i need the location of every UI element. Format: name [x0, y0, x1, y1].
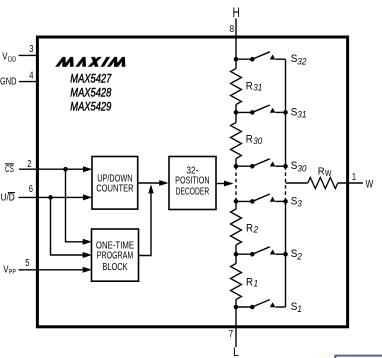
- resistor R1: [231, 264, 242, 300]
- svg-text:R: R: [246, 134, 253, 146]
- svg-text:PROGRAM: PROGRAM: [97, 251, 133, 262]
- svg-text:S: S: [291, 106, 298, 118]
- svg-text:3: 3: [29, 44, 34, 55]
- switch S30: [234, 159, 288, 169]
- label R1: [246, 277, 258, 289]
- wire VPP: [19, 269, 85, 271]
- dashed ladder segment S30 to S3: [235, 166, 237, 201]
- faint smudge: [317, 352, 333, 358]
- svg-text:S: S: [291, 160, 298, 172]
- svg-text:DECODER: DECODER: [176, 186, 210, 197]
- svg-text:2: 2: [253, 225, 259, 235]
- wire R1 to S1: [235, 300, 237, 308]
- svg-text:32: 32: [297, 56, 307, 67]
- svg-text:W: W: [366, 179, 374, 191]
- label S3: [291, 195, 303, 209]
- junction dot U/D: [48, 195, 53, 200]
- svg-text:31: 31: [253, 83, 262, 93]
- arrow CS into counter: [83, 166, 92, 172]
- wire R2 to S2: [235, 245, 237, 264]
- svg-text:6: 6: [29, 184, 34, 195]
- svg-text:R: R: [318, 165, 325, 177]
- wire H into ladder: [235, 19, 237, 69]
- pin VDD label: [2, 52, 16, 64]
- svg-text:L: L: [233, 345, 239, 358]
- wire VDD: [19, 54, 39, 56]
- partial UI box bottom-right: [335, 356, 382, 358]
- resistor R31: [231, 69, 242, 105]
- label R31: [246, 81, 263, 93]
- svg-text:DD: DD: [8, 54, 17, 63]
- svg-text:GND: GND: [0, 77, 17, 88]
- svg-text:3: 3: [297, 199, 302, 210]
- resistor R2: [231, 209, 242, 245]
- svg-text:ONE-TIME: ONE-TIME: [96, 240, 134, 251]
- wiper bus solid upper segment: [285, 59, 287, 166]
- svg-text:S: S: [291, 195, 298, 207]
- arrow into decoder: [159, 180, 168, 186]
- label S32: [291, 53, 307, 67]
- wiper bus solid lower segment: [285, 201, 287, 307]
- arrow decoder to switches: [224, 181, 234, 187]
- svg-text:V: V: [2, 52, 7, 63]
- block U3 one-time program block: [92, 229, 139, 281]
- svg-text:S: S: [291, 301, 298, 313]
- block U1 up/down counter: [92, 157, 138, 210]
- arrow CS branch into program block: [83, 239, 92, 245]
- svg-text:2: 2: [27, 159, 32, 170]
- label RW: [318, 165, 332, 178]
- svg-text:U/D: U/D: [1, 192, 15, 203]
- arrow up from program block: [148, 184, 153, 193]
- svg-text:S: S: [291, 53, 298, 65]
- pin U/D label (down active low): [1, 192, 16, 203]
- arrow U/D branch into program block: [83, 252, 92, 258]
- svg-text:W: W: [325, 169, 332, 178]
- pin VPP label: [3, 264, 16, 276]
- wire ladder bottom to L: [235, 307, 237, 347]
- wire counter to decoder: [138, 182, 160, 184]
- svg-text:MAX5429: MAX5429: [70, 100, 111, 114]
- svg-text:5: 5: [25, 258, 30, 269]
- svg-text:R: R: [246, 223, 253, 235]
- arrow VPP into program block: [83, 267, 92, 273]
- wire U/D: [19, 196, 85, 198]
- label S1: [291, 301, 302, 315]
- resistor RW: [308, 178, 338, 189]
- svg-text:R: R: [246, 81, 253, 93]
- svg-text:31: 31: [297, 110, 306, 121]
- switch S1: [234, 300, 286, 310]
- wire S3 to R2: [235, 201, 237, 209]
- svg-text:CS: CS: [5, 164, 14, 175]
- svg-text:4: 4: [29, 71, 34, 82]
- svg-text:BLOCK: BLOCK: [102, 262, 127, 273]
- svg-text:S: S: [291, 248, 298, 260]
- wiper bus dashed segment: [285, 166, 287, 201]
- svg-text:2: 2: [296, 251, 302, 262]
- junction dot CS: [63, 167, 68, 172]
- pin CS label (active low): [5, 164, 14, 175]
- wire RW to W pin: [338, 182, 363, 184]
- switch S2: [234, 247, 288, 257]
- svg-text:8: 8: [230, 24, 235, 35]
- svg-text:1: 1: [254, 279, 259, 289]
- svg-text:MAX5427: MAX5427: [70, 72, 112, 86]
- wire GND: [19, 81, 39, 83]
- svg-text:1: 1: [352, 172, 357, 183]
- wire CS branch to program block: [66, 169, 84, 242]
- svg-text:1: 1: [297, 304, 302, 315]
- wire U/D branch to program block: [51, 197, 84, 255]
- label S30: [291, 160, 307, 174]
- IC boundary box: [37, 37, 347, 327]
- switch S32: [234, 52, 286, 62]
- svg-text:MAX5428: MAX5428: [70, 86, 111, 100]
- label S31: [291, 106, 307, 120]
- wire bus to RW: [286, 182, 308, 184]
- label R30: [246, 134, 263, 146]
- label R2: [246, 223, 259, 235]
- svg-text:H: H: [233, 5, 240, 20]
- switch S31: [234, 105, 288, 115]
- svg-text:R: R: [246, 277, 253, 289]
- arrow U/D into counter: [83, 194, 92, 200]
- svg-text:30: 30: [297, 163, 307, 174]
- label S2: [291, 248, 303, 262]
- switch S3: [234, 194, 288, 204]
- MAXIM logo: [56, 57, 129, 66]
- svg-text:7: 7: [229, 329, 234, 340]
- svg-text:PP: PP: [9, 267, 16, 276]
- wire CS: [19, 168, 84, 170]
- svg-text:POSITION: POSITION: [175, 176, 210, 187]
- resistor R30: [231, 123, 242, 159]
- svg-text:COUNTER: COUNTER: [96, 184, 133, 195]
- block U2 32-position decoder: [169, 157, 216, 210]
- wire R30 to S30: [235, 159, 237, 167]
- wire program block up to counter-decoder wire: [139, 193, 151, 256]
- wire decoder output to switch array: [216, 183, 225, 185]
- svg-text:30: 30: [253, 136, 263, 146]
- wire R31 to S31: [235, 105, 237, 123]
